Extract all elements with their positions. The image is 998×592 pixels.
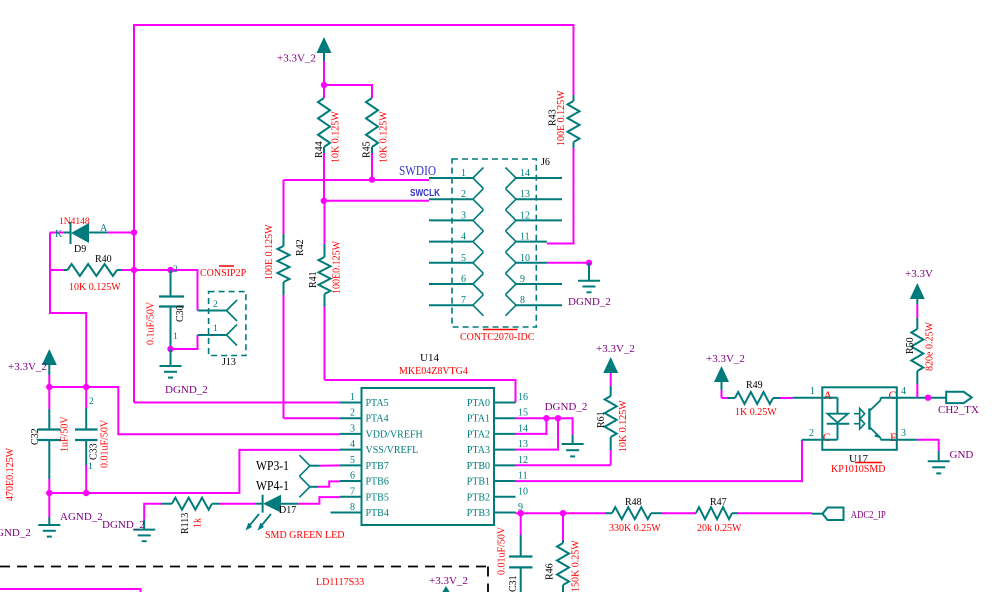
- svg-text:PTA3: PTA3: [467, 445, 490, 456]
- svg-text:10K 0.125W: 10K 0.125W: [379, 111, 390, 163]
- jumper fork WP3-1: [299, 455, 310, 466]
- svg-text:WP3-1: WP3-1: [256, 459, 289, 474]
- svg-text:MKE04Z8VTG4: MKE04Z8VTG4: [399, 366, 468, 377]
- svg-text:+3.3V_2: +3.3V_2: [277, 53, 316, 65]
- svg-text:2: 2: [809, 428, 814, 439]
- node R40 right junction: [131, 267, 137, 273]
- svg-text:100E 0.125W: 100E 0.125W: [556, 90, 567, 146]
- svg-text:R41: R41: [308, 271, 319, 288]
- svg-text:CONTC2070-IDC: CONTC2070-IDC: [460, 332, 535, 343]
- node rail junction C32: [46, 384, 52, 390]
- connector J13 CONSIP2P dashed box: [209, 292, 246, 356]
- node AGND junction C33: [83, 490, 89, 496]
- svg-text:PTA1: PTA1: [467, 414, 490, 425]
- capacitor C33: [85, 387, 87, 408]
- J6 pin 4: [429, 241, 473, 243]
- svg-text:R49: R49: [746, 380, 763, 391]
- svg-text:1: 1: [88, 462, 93, 472]
- node C30 top junction: [167, 267, 173, 273]
- U14 pin 16 PTA0: [494, 402, 516, 404]
- resistor R46: [562, 513, 564, 540]
- svg-text:PTB1: PTB1: [467, 477, 490, 488]
- svg-text:1uF/50V: 1uF/50V: [60, 416, 71, 452]
- svg-text:PTB0: PTB0: [467, 461, 490, 472]
- svg-text:3: 3: [901, 428, 906, 439]
- wire U17 pin3 to GND: [917, 440, 938, 451]
- svg-text:330K 0.25W: 330K 0.25W: [609, 523, 661, 534]
- connector J6 CONTC2070-IDC dashed box: [452, 159, 536, 327]
- svg-text:4: 4: [350, 439, 355, 450]
- svg-text:1: 1: [173, 332, 178, 342]
- node junction PTB3/C31: [518, 510, 524, 516]
- svg-text:2: 2: [173, 265, 178, 275]
- wire AGND rail to VSS pin4: [49, 450, 340, 493]
- svg-text:SWCLK: SWCLK: [410, 188, 441, 199]
- U14 pin 7 PTB5: [340, 496, 362, 498]
- svg-text:10: 10: [520, 253, 530, 264]
- svg-text:3: 3: [350, 423, 355, 434]
- wire WP4-1 to U14 pin6 PTB6: [318, 481, 340, 486]
- svg-text:100E 0.125W: 100E 0.125W: [264, 224, 275, 280]
- wire D9 cathode down to R40 left: [49, 233, 51, 271]
- node C30 bottom junction: [167, 346, 173, 352]
- svg-text:+3.3V_2: +3.3V_2: [8, 361, 47, 373]
- svg-text:820e 0.25W: 820e 0.25W: [925, 322, 936, 371]
- wire SWCLK net: [324, 200, 429, 202]
- svg-text:0.1uF/50V: 0.1uF/50V: [146, 301, 157, 345]
- U14 pin 10 PTB2: [494, 496, 516, 498]
- J6 pin 8: [516, 304, 562, 306]
- power +3.3V above R50: [910, 283, 925, 299]
- svg-text:11: 11: [518, 471, 528, 482]
- U14 pin 4 VSS/VREFL: [340, 449, 362, 451]
- svg-text:6: 6: [350, 471, 355, 482]
- svg-text:20k 0.25W: 20k 0.25W: [697, 523, 742, 534]
- svg-text:2: 2: [213, 300, 218, 310]
- svg-text:VDD/VREFH: VDD/VREFH: [366, 429, 423, 440]
- U17 phototransistor: [868, 408, 870, 429]
- IC U14 MKE04Z8VTG4 body: [362, 388, 495, 525]
- svg-text:DGND_2: DGND_2: [545, 401, 588, 413]
- resistor R42: [283, 180, 285, 234]
- wire top net from PTA5 node to R43/J6-11: [134, 25, 574, 403]
- svg-text:AGND_2: AGND_2: [60, 511, 103, 523]
- J6 pin 7: [429, 304, 473, 306]
- power +3.3V_2 bottom cut: [440, 586, 452, 592]
- svg-text:1: 1: [810, 386, 815, 397]
- diode D9 1N4148: [50, 232, 64, 234]
- svg-text:1K 0.25W: 1K 0.25W: [735, 407, 777, 418]
- ground DGND_2 at R113: [144, 504, 161, 520]
- svg-text:D9: D9: [74, 244, 86, 255]
- svg-text:PTB3: PTB3: [467, 508, 490, 519]
- svg-text:DGND_2: DGND_2: [102, 519, 145, 531]
- resistor R61: [605, 396, 617, 437]
- svg-text:12: 12: [520, 210, 530, 221]
- wire PTA5 node to U14 pin 1: [134, 402, 340, 404]
- wire SWDIO net: [284, 179, 430, 181]
- port ADC2_IP: [812, 513, 823, 515]
- svg-text:100E0.125W: 100E0.125W: [332, 240, 343, 294]
- svg-text:+3.3V_2: +3.3V_2: [706, 353, 745, 365]
- svg-text:R50: R50: [905, 337, 916, 354]
- LED light arrows: [248, 514, 260, 528]
- svg-text:R48: R48: [625, 497, 642, 508]
- svg-text:D17: D17: [279, 505, 296, 516]
- svg-text:150K 0.25W: 150K 0.25W: [571, 540, 582, 592]
- svg-text:14: 14: [520, 168, 530, 179]
- ground DGND_2 under C30: [170, 349, 172, 366]
- svg-text:7: 7: [350, 486, 355, 497]
- svg-text:DGND_2: DGND_2: [165, 384, 208, 396]
- wire +3.3V_2 to R45 top: [324, 85, 372, 98]
- resistor R47: [696, 507, 732, 519]
- svg-text:15: 15: [518, 408, 528, 419]
- resistor R48: [605, 512, 612, 514]
- svg-text:4: 4: [901, 386, 906, 397]
- svg-text:GND: GND: [950, 449, 974, 461]
- U17 pin 1 anode: [793, 397, 823, 399]
- node junction PTA1/PTA3: [555, 415, 561, 421]
- wire U17 pin4 to CH2_TX port: [917, 397, 946, 399]
- wire node to C30 and J13: [134, 270, 198, 311]
- svg-text:PTB5: PTB5: [366, 492, 389, 503]
- U14 pin 9 PTB3: [494, 511, 516, 513]
- svg-text:LD1117S33: LD1117S33: [316, 577, 364, 588]
- node rail junction C33: [83, 384, 89, 390]
- svg-text:5: 5: [461, 253, 466, 264]
- svg-text:C30: C30: [175, 305, 186, 322]
- svg-text:3: 3: [461, 210, 466, 221]
- svg-text:R47: R47: [710, 497, 727, 508]
- svg-text:PTA0: PTA0: [467, 398, 490, 409]
- svg-text:14: 14: [518, 423, 528, 434]
- J6 pin 11: [516, 241, 547, 243]
- svg-text:A: A: [824, 388, 833, 402]
- svg-text:C31: C31: [508, 575, 519, 592]
- svg-text:4: 4: [461, 232, 466, 243]
- svg-text:2: 2: [461, 189, 466, 200]
- resistor R113: [161, 503, 172, 505]
- svg-text:J13: J13: [222, 357, 236, 368]
- svg-text:9: 9: [520, 274, 525, 285]
- svg-text:1: 1: [350, 392, 355, 403]
- LED D17 SMD GREEN: [255, 503, 257, 505]
- svg-text:R44: R44: [314, 141, 325, 158]
- svg-text:DGND_2: DGND_2: [568, 296, 611, 308]
- svg-text:470E0.125W: 470E0.125W: [5, 447, 16, 501]
- svg-text:10K 0.125W: 10K 0.125W: [618, 400, 629, 452]
- U17 internal LED: [822, 397, 837, 399]
- svg-text:C32: C32: [30, 428, 41, 445]
- power +3.3V_2 top (R44/R45): [317, 37, 332, 53]
- svg-text:2: 2: [350, 408, 355, 419]
- svg-text:R61: R61: [596, 411, 607, 428]
- U14 pin 1 PTA5: [340, 402, 362, 404]
- U17 pin 4 collector: [897, 397, 918, 399]
- svg-text:R45: R45: [362, 141, 373, 158]
- svg-text:ADC2_IP: ADC2_IP: [851, 509, 886, 521]
- svg-text:SWDIO: SWDIO: [399, 163, 436, 178]
- J6 pin 5: [429, 262, 473, 264]
- dashed section divider: [0, 566, 488, 568]
- U14 pin 12 PTB0: [494, 464, 516, 466]
- node junction PTA1/PTA2: [543, 415, 549, 421]
- resistor R40: [50, 269, 64, 271]
- ground GND: [938, 451, 940, 461]
- wire PTB1 long net to U17 pin2: [516, 440, 803, 481]
- J6 pin 10: [516, 262, 547, 264]
- svg-text:1: 1: [461, 168, 466, 179]
- node SWDIO/R45 junction: [369, 176, 375, 182]
- wire PTA3 to junction: [516, 418, 559, 449]
- svg-text:WP4-1: WP4-1: [256, 479, 289, 494]
- svg-text:KP1010SMD: KP1010SMD: [831, 464, 885, 475]
- svg-text:A: A: [100, 223, 108, 234]
- U14 pin 14 PTA2: [494, 433, 516, 435]
- svg-text:6: 6: [461, 274, 466, 285]
- wire PTB0 to R61 bottom: [516, 464, 611, 466]
- svg-text:0.01uF/50V: 0.01uF/50V: [497, 526, 508, 575]
- svg-text:5: 5: [350, 455, 355, 466]
- svg-text:R40: R40: [95, 254, 112, 265]
- capacitor C30: [170, 270, 172, 296]
- node junction R44/R45 top: [321, 82, 327, 88]
- ground DGND_2 right of U14: [572, 435, 574, 444]
- J6 pin 13: [516, 198, 562, 200]
- jumper fork WP4-1: [299, 476, 310, 487]
- svg-text:13: 13: [520, 189, 530, 200]
- power +3.3V_2 left: [42, 349, 57, 365]
- svg-text:1N4148: 1N4148: [59, 217, 90, 227]
- resistor R43: [573, 95, 575, 101]
- svg-text:+3.3V: +3.3V: [905, 268, 933, 280]
- svg-text:1k: 1k: [193, 518, 204, 528]
- ground DGND_2 at J6 pin10: [588, 263, 590, 281]
- J13 pin 2: [198, 310, 227, 312]
- U14 pin 3 VDD/VREFH: [340, 433, 362, 435]
- svg-text:10K 0.125W: 10K 0.125W: [69, 282, 121, 293]
- svg-text:12: 12: [518, 455, 528, 466]
- wire D17 anode to U14 pin7 PTB5: [298, 497, 340, 504]
- svg-text:C33: C33: [89, 443, 100, 460]
- svg-text:U14: U14: [420, 352, 439, 364]
- wire PTA1 net with junctions: [516, 418, 573, 435]
- wire R42 bottom to U14 pin2: [284, 417, 341, 419]
- svg-text:1: 1: [213, 324, 218, 334]
- U14 pin 5 PTB7: [340, 464, 362, 466]
- J6 pin 6: [429, 283, 473, 285]
- U14 pin 13 PTA3: [494, 449, 516, 451]
- wire J6 pin10 to DGND_2: [547, 262, 589, 264]
- svg-text:PTB6: PTB6: [366, 477, 389, 488]
- J13 pin 1: [198, 334, 227, 336]
- J6 pin 9: [516, 283, 562, 285]
- capacitor C31: [520, 513, 522, 535]
- wire PTB3 net to R48: [516, 512, 606, 514]
- wire C30 bottom to J13 pin1: [171, 335, 198, 349]
- U17 pin 2 cathode: [802, 439, 822, 441]
- power +3.3V_2 above R49: [714, 366, 729, 382]
- U14 pin 8 PTB4: [331, 511, 362, 513]
- svg-text:10K 0.125W: 10K 0.125W: [331, 111, 342, 163]
- svg-text:PTB2: PTB2: [467, 492, 490, 503]
- resistor R45: [366, 98, 378, 147]
- svg-text:K: K: [55, 229, 63, 240]
- svg-text:8: 8: [350, 502, 355, 513]
- J6 pin 14: [516, 177, 562, 179]
- svg-text:16: 16: [518, 392, 528, 403]
- wire +3.3V rail to VDD pin3: [49, 387, 340, 434]
- svg-text:GND_2: GND_2: [0, 527, 31, 539]
- svg-text:PTA5: PTA5: [366, 398, 389, 409]
- node junction pin10/ground: [586, 260, 592, 266]
- capacitor C32: [48, 387, 50, 409]
- node AGND junction C32: [46, 490, 52, 496]
- svg-text:CONSIP2P: CONSIP2P: [200, 268, 247, 279]
- svg-text:J6: J6: [541, 157, 550, 168]
- svg-text:CH2_TX: CH2_TX: [938, 404, 979, 416]
- J6 pin 1: [429, 177, 473, 179]
- resistor R49: [722, 397, 729, 399]
- svg-text:7: 7: [461, 295, 466, 306]
- svg-text:2: 2: [89, 397, 94, 407]
- power +3.3V_2 above R61: [603, 357, 618, 373]
- svg-text:8: 8: [520, 295, 525, 306]
- svg-text:C: C: [823, 430, 831, 444]
- resistor R50: [911, 329, 923, 371]
- svg-text:+3.3V_2: +3.3V_2: [429, 575, 468, 587]
- svg-text:+3.3V_2: +3.3V_2: [596, 343, 635, 355]
- resistor R41: [324, 201, 326, 244]
- magenta block outline bottom-left: [0, 589, 141, 592]
- svg-text:SMD GREEN LED: SMD GREEN LED: [265, 530, 344, 541]
- svg-text:10: 10: [518, 486, 528, 497]
- svg-text:13: 13: [518, 439, 528, 450]
- optocoupler U17 KP1010SMD body: [822, 387, 897, 450]
- wire PTA2 to junction: [516, 418, 547, 434]
- node SWCLK/R44 junction: [321, 198, 327, 204]
- resistor R44: [323, 85, 325, 98]
- U14 pin 6 PTB6: [340, 480, 362, 482]
- node junction R50/CH2_TX: [925, 395, 931, 401]
- svg-text:PTA4: PTA4: [366, 414, 389, 425]
- port CH2_TX: [946, 392, 972, 403]
- wire R43 bottom to J6 pin 11: [547, 148, 574, 244]
- svg-text:R46: R46: [545, 563, 556, 580]
- svg-text:PTB4: PTB4: [366, 508, 389, 519]
- wire R40 left node down to +3.3V_2 rail: [50, 270, 86, 387]
- svg-text:R42: R42: [295, 239, 306, 256]
- svg-text:PTB7: PTB7: [366, 461, 389, 472]
- svg-text:E: E: [890, 430, 897, 444]
- U14 pin 2 PTA4: [340, 417, 362, 419]
- svg-text:C: C: [889, 388, 897, 402]
- wire R41 bottom to U14 pin16 (PTA0): [325, 380, 516, 403]
- ground AGND_2: [48, 493, 50, 517]
- J6 pin 3: [429, 219, 473, 221]
- J6 pin 12: [516, 219, 562, 221]
- svg-text:11: 11: [520, 232, 530, 243]
- svg-text:R113: R113: [180, 513, 191, 534]
- U17 pin 3 emitter: [897, 439, 918, 441]
- svg-text:0.01uF/50V: 0.01uF/50V: [100, 419, 111, 468]
- U14 pin 15 PTA1: [494, 417, 516, 419]
- J6 pin 2: [429, 198, 473, 200]
- svg-text:PTA2: PTA2: [467, 429, 490, 440]
- node D9 anode junction: [131, 229, 137, 235]
- svg-text:VSS/VREFL: VSS/VREFL: [366, 445, 419, 456]
- U14 pin 11 PTB1: [494, 480, 516, 482]
- node junction PTB3/R46: [560, 510, 566, 516]
- U17 light arrows: [854, 413, 860, 415]
